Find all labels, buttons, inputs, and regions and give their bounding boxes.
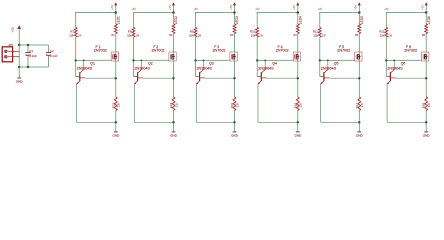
svg-text:+5V: +5V [384, 8, 389, 11]
svg-text:LED2: LED2 [174, 16, 178, 24]
svg-text:2N7002: 2N7002 [404, 49, 417, 53]
svg-text:GND: GND [356, 133, 364, 137]
svg-text:+5V: +5V [168, 5, 172, 10]
svg-text:+5V: +5V [354, 5, 358, 10]
svg-text:1W: 1W [136, 34, 140, 37]
svg-text:Q2: Q2 [148, 62, 153, 66]
svg-text:Q3: Q3 [209, 62, 214, 66]
svg-text:2N3904S: 2N3904S [321, 67, 337, 71]
svg-text:1W: 1W [259, 34, 263, 37]
svg-text:1W: 1W [388, 34, 392, 37]
svg-text:GND: GND [112, 133, 120, 137]
svg-text:1.8: 1.8 [427, 103, 431, 108]
svg-text:2N3904S: 2N3904S [197, 67, 213, 71]
svg-text:2N3904S: 2N3904S [135, 67, 151, 71]
svg-text:10k: 10k [380, 33, 385, 37]
svg-text:1.8: 1.8 [117, 103, 121, 108]
svg-text:R15: R15 [230, 103, 234, 109]
svg-text:Q4: Q4 [272, 62, 277, 66]
svg-text:+5V: +5V [110, 5, 114, 10]
svg-text:R4: R4 [294, 34, 298, 37]
svg-text:+5V: +5V [292, 5, 296, 10]
svg-text:2.2uF: 2.2uF [29, 54, 37, 58]
svg-text:LED5: LED5 [360, 16, 364, 24]
svg-text:R6: R6 [422, 34, 426, 37]
svg-text:LED3: LED3 [235, 16, 239, 24]
svg-text:2N3904S: 2N3904S [387, 67, 403, 71]
svg-text:LED1: LED1 [117, 16, 121, 24]
svg-text:R5: R5 [355, 34, 359, 37]
svg-text:10k: 10k [189, 33, 194, 37]
svg-text:LED6: LED6 [427, 16, 431, 24]
svg-text:C1: C1 [29, 49, 33, 53]
svg-text:R1: R1 [112, 34, 116, 37]
svg-text:R18: R18 [422, 103, 426, 109]
svg-text:0.1uF: 0.1uF [50, 54, 58, 58]
svg-text:+5V: +5V [229, 5, 233, 10]
svg-text:1.8: 1.8 [299, 103, 303, 108]
svg-text:+5V: +5V [318, 8, 323, 11]
svg-text:LED4: LED4 [299, 16, 303, 24]
svg-text:+5V: +5V [11, 26, 15, 33]
svg-text:+5V: +5V [255, 8, 260, 11]
svg-text:1.8: 1.8 [174, 103, 178, 108]
svg-text:+5V: +5V [132, 8, 137, 11]
svg-text:+5V: +5V [194, 8, 199, 11]
svg-text:10k: 10k [251, 33, 256, 37]
svg-text:R14: R14 [169, 103, 173, 109]
svg-text:2N3904S: 2N3904S [258, 67, 274, 71]
svg-text:1.8: 1.8 [360, 103, 364, 108]
svg-text:2N7002: 2N7002 [337, 49, 350, 53]
svg-text:GND: GND [423, 133, 431, 137]
svg-text:1W: 1W [198, 34, 202, 37]
svg-text:R16: R16 [293, 103, 297, 109]
svg-text:+5V: +5V [421, 5, 425, 10]
svg-text:GND: GND [231, 133, 239, 137]
svg-text:Q6: Q6 [401, 62, 406, 66]
svg-text:2N3904S: 2N3904S [77, 67, 93, 71]
svg-text:C2: C2 [50, 49, 54, 53]
svg-text:R17: R17 [355, 103, 359, 109]
svg-text:2N7002: 2N7002 [94, 49, 107, 53]
svg-text:2N7002: 2N7002 [213, 49, 226, 53]
svg-text:JP1: JP1 [8, 43, 13, 47]
svg-text:10k: 10k [127, 33, 132, 37]
svg-text:R3: R3 [230, 34, 234, 37]
svg-text:GND: GND [16, 79, 24, 83]
svg-text:1.8: 1.8 [235, 103, 239, 108]
svg-text:Q5: Q5 [334, 62, 339, 66]
svg-text:10k: 10k [313, 33, 318, 37]
svg-text:10k: 10k [69, 33, 74, 37]
svg-text:2N7002: 2N7002 [152, 49, 165, 53]
svg-text:GND: GND [170, 133, 178, 137]
svg-text:R13: R13 [111, 103, 115, 109]
svg-text:R2: R2 [169, 34, 173, 37]
svg-text:GND: GND [294, 133, 302, 137]
svg-text:2N7002: 2N7002 [276, 49, 289, 53]
svg-text:1W: 1W [78, 34, 82, 37]
svg-text:1W: 1W [322, 34, 326, 37]
svg-text:Q1: Q1 [90, 62, 95, 66]
